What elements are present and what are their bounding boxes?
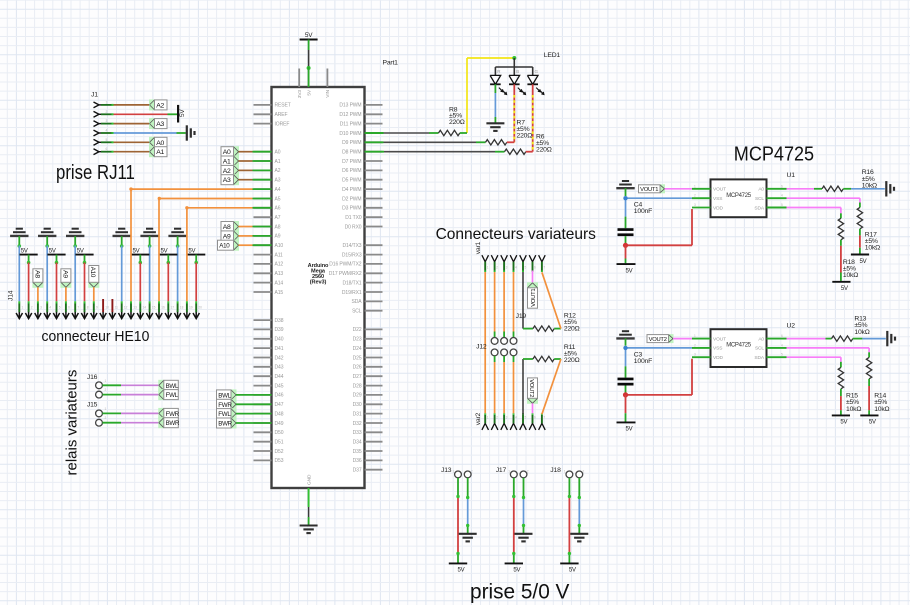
svg-text:2: 2 (105, 388, 107, 392)
svg-text:100nF: 100nF (634, 358, 652, 365)
svg-text:VSS: VSS (713, 346, 722, 352)
svg-text:A3: A3 (275, 178, 281, 184)
svg-text:11: 11 (115, 306, 119, 310)
svg-text:10kΩ: 10kΩ (874, 406, 889, 413)
svg-text:J14: J14 (8, 290, 15, 301)
svg-text:U2: U2 (787, 322, 796, 329)
svg-text:VSS: VSS (713, 196, 722, 202)
svg-text:A10: A10 (219, 243, 230, 250)
svg-text:D35: D35 (353, 449, 362, 455)
svg-text:5: 5 (781, 203, 783, 207)
svg-text:A8: A8 (33, 270, 40, 278)
svg-text:D10 PWM: D10 PWM (339, 131, 361, 137)
svg-text:SDA: SDA (754, 205, 764, 211)
svg-text:MCP4725: MCP4725 (726, 193, 752, 199)
svg-text:D19/RX1: D19/RX1 (342, 290, 362, 296)
svg-text:1: 1 (694, 184, 696, 188)
svg-text:7: 7 (77, 306, 79, 310)
svg-text:6: 6 (534, 266, 536, 270)
svg-text:14: 14 (143, 306, 147, 310)
svg-text:6: 6 (534, 416, 536, 420)
svg-text:FWR: FWR (218, 402, 232, 409)
svg-text:D14/TX3: D14/TX3 (342, 243, 361, 249)
svg-text:D4 PWM: D4 PWM (342, 187, 361, 193)
svg-text:2: 2 (694, 343, 696, 347)
svg-text:3: 3 (694, 203, 696, 207)
svg-text:3: 3 (506, 416, 508, 420)
svg-text:D34: D34 (353, 440, 362, 446)
svg-text:VOUT: VOUT (713, 187, 726, 193)
svg-text:VOUT1: VOUT1 (531, 289, 537, 307)
svg-text:10kΩ: 10kΩ (862, 182, 877, 189)
svg-text:A8: A8 (275, 224, 281, 230)
svg-text:220Ω: 220Ω (564, 357, 580, 364)
svg-text:A2: A2 (223, 168, 231, 175)
svg-text:D25: D25 (353, 355, 362, 361)
svg-text:5V: 5V (179, 109, 186, 117)
svg-text:VOUT2: VOUT2 (528, 379, 534, 397)
svg-text:A3: A3 (156, 121, 164, 128)
svg-text:D13 PWM: D13 PWM (339, 103, 361, 109)
svg-text:D24: D24 (353, 346, 362, 352)
svg-text:1: 1 (487, 266, 489, 270)
svg-text:D26: D26 (353, 365, 362, 371)
svg-text:2: 2 (106, 110, 108, 114)
svg-text:connecteur HE10: connecteur HE10 (42, 329, 150, 346)
svg-text:D17 PWM/RX2: D17 PWM/RX2 (329, 271, 362, 277)
svg-text:D38: D38 (275, 318, 284, 324)
svg-text:MCP4725: MCP4725 (726, 343, 752, 349)
svg-text:10kΩ: 10kΩ (865, 245, 880, 252)
svg-text:A6: A6 (275, 206, 281, 212)
svg-text:10kΩ: 10kΩ (846, 406, 861, 413)
svg-text:J12: J12 (476, 344, 487, 351)
svg-text:VOUT: VOUT (713, 336, 726, 342)
svg-text:220Ω: 220Ω (449, 119, 465, 126)
svg-text:A5: A5 (275, 196, 281, 202)
svg-text:5V: 5V (626, 268, 633, 274)
svg-text:VOUT2: VOUT2 (649, 337, 667, 343)
svg-text:3: 3 (506, 266, 508, 270)
svg-text:5: 5 (525, 266, 527, 270)
svg-text:15: 15 (152, 306, 156, 310)
svg-text:A13: A13 (275, 271, 284, 277)
svg-text:D5 PWM: D5 PWM (342, 178, 361, 184)
svg-text:D2 PWM: D2 PWM (342, 196, 361, 202)
svg-text:1: 1 (564, 470, 566, 474)
svg-text:A2: A2 (275, 168, 281, 174)
svg-text:4: 4 (515, 266, 517, 270)
svg-text:VOUT1: VOUT1 (640, 187, 658, 193)
svg-text:J13: J13 (441, 467, 452, 474)
svg-text:13: 13 (133, 306, 137, 310)
svg-text:D16 PWM/TX2: D16 PWM/TX2 (329, 262, 362, 268)
svg-text:A0: A0 (275, 150, 281, 156)
svg-text:5V: 5V (458, 568, 465, 574)
svg-text:RESET: RESET (275, 103, 291, 109)
svg-text:SCL: SCL (755, 196, 764, 202)
svg-text:A1: A1 (223, 159, 231, 166)
svg-text:2: 2 (496, 416, 498, 420)
svg-text:A1: A1 (156, 149, 164, 156)
svg-text:GND: GND (307, 474, 313, 485)
svg-text:SDA: SDA (754, 355, 764, 361)
svg-text:D1 TX0: D1 TX0 (345, 215, 362, 221)
svg-text:5: 5 (525, 416, 527, 420)
svg-text:2: 2 (583, 470, 585, 474)
svg-text:5V: 5V (188, 248, 195, 254)
svg-text:A9: A9 (275, 234, 281, 240)
svg-text:D48: D48 (275, 411, 284, 417)
svg-text:D37: D37 (353, 468, 362, 474)
svg-text:MCP4725: MCP4725 (734, 144, 814, 166)
svg-text:10kΩ: 10kΩ (854, 329, 869, 336)
svg-text:A7: A7 (275, 215, 281, 221)
svg-text:(Rev3): (Rev3) (310, 280, 327, 286)
svg-text:D12 PWM: D12 PWM (339, 112, 361, 118)
svg-text:FWL: FWL (218, 411, 231, 418)
svg-text:G: G (535, 69, 539, 74)
svg-text:3: 3 (694, 353, 696, 357)
svg-text:5V: 5V (569, 568, 576, 574)
svg-text:20: 20 (198, 306, 202, 310)
svg-text:18: 18 (180, 306, 184, 310)
svg-text:SDA: SDA (352, 299, 363, 305)
svg-text:A3: A3 (223, 177, 231, 184)
svg-text:D0 RX0: D0 RX0 (345, 224, 362, 230)
svg-text:7: 7 (543, 266, 545, 270)
svg-text:A1: A1 (275, 159, 281, 165)
svg-text:6: 6 (68, 306, 70, 310)
svg-text:D15/RX3: D15/RX3 (342, 252, 362, 258)
svg-text:220Ω: 220Ω (564, 325, 580, 332)
svg-text:2: 2 (471, 470, 473, 474)
svg-text:2: 2 (31, 306, 33, 310)
svg-text:BWL: BWL (166, 383, 179, 390)
svg-text:1: 1 (508, 470, 510, 474)
svg-text:5V: 5V (513, 568, 520, 574)
svg-text:D43: D43 (275, 365, 284, 371)
svg-text:IOREF: IOREF (275, 121, 290, 127)
svg-text:D32: D32 (353, 421, 362, 427)
svg-text:A0: A0 (156, 140, 164, 147)
svg-text:4: 4 (515, 416, 517, 420)
svg-text:D49: D49 (275, 421, 284, 427)
svg-text:D41: D41 (275, 346, 284, 352)
svg-text:FWR: FWR (166, 411, 180, 418)
svg-text:10: 10 (105, 306, 109, 310)
svg-text:VDD: VDD (713, 205, 723, 211)
svg-text:4: 4 (781, 343, 783, 347)
svg-text:B: B (516, 69, 519, 74)
svg-text:SCL: SCL (352, 309, 362, 315)
svg-text:D28: D28 (353, 383, 362, 389)
svg-text:D50: D50 (275, 430, 284, 436)
svg-text:4: 4 (49, 306, 51, 310)
svg-text:A9: A9 (223, 233, 231, 240)
svg-text:2: 2 (496, 266, 498, 270)
svg-text:D45: D45 (275, 383, 284, 389)
svg-text:D23: D23 (353, 337, 362, 343)
svg-text:D11 PWM: D11 PWM (340, 121, 362, 127)
svg-text:1: 1 (22, 306, 24, 310)
svg-text:6: 6 (781, 184, 783, 188)
svg-text:2: 2 (527, 470, 529, 474)
svg-text:7: 7 (543, 416, 545, 420)
svg-text:10kΩ: 10kΩ (843, 272, 858, 279)
svg-text:A0: A0 (758, 187, 764, 193)
svg-text:D44: D44 (275, 374, 284, 380)
svg-text:A8: A8 (223, 224, 231, 231)
svg-text:Part1: Part1 (383, 60, 399, 67)
svg-text:D6 PWM: D6 PWM (342, 168, 361, 174)
svg-text:5V: 5V (21, 248, 28, 254)
svg-text:var1: var1 (475, 241, 482, 254)
svg-text:A0: A0 (758, 336, 764, 342)
svg-text:relais variateurs: relais variateurs (63, 370, 80, 476)
svg-text:D18/TX1: D18/TX1 (342, 280, 361, 286)
svg-text:var2: var2 (475, 412, 482, 425)
svg-text:A10: A10 (275, 243, 284, 249)
svg-text:VIN: VIN (325, 89, 331, 97)
svg-text:2: 2 (694, 194, 696, 198)
svg-text:6: 6 (781, 334, 783, 338)
svg-text:D47: D47 (275, 402, 284, 408)
svg-text:5V: 5V (161, 248, 168, 254)
svg-text:17: 17 (171, 306, 175, 310)
svg-text:FWL: FWL (166, 392, 179, 399)
svg-text:D52: D52 (275, 449, 284, 455)
svg-text:5: 5 (781, 353, 783, 357)
svg-text:D22: D22 (353, 327, 362, 333)
svg-text:A12: A12 (275, 262, 284, 268)
svg-text:D33: D33 (353, 430, 362, 436)
svg-text:4: 4 (106, 129, 108, 133)
svg-text:J16: J16 (87, 374, 98, 381)
svg-text:5: 5 (106, 138, 108, 142)
svg-text:J15: J15 (87, 402, 98, 409)
svg-text:U1: U1 (787, 172, 796, 179)
svg-text:AREF: AREF (275, 112, 288, 118)
svg-text:5V: 5V (841, 286, 848, 292)
svg-text:8: 8 (87, 306, 89, 310)
svg-text:5V: 5V (626, 427, 633, 433)
svg-text:A11: A11 (275, 252, 284, 258)
svg-text:LED1: LED1 (544, 52, 561, 59)
svg-text:D42: D42 (275, 355, 284, 361)
svg-text:A15: A15 (275, 290, 284, 296)
svg-text:BWR: BWR (218, 421, 232, 428)
svg-text:Connecteurs variateurs: Connecteurs variateurs (436, 226, 596, 243)
svg-text:100nF: 100nF (634, 208, 652, 215)
svg-text:16: 16 (161, 306, 165, 310)
svg-text:prise 5/0 V: prise 5/0 V (470, 580, 570, 603)
svg-text:3V3: 3V3 (297, 90, 303, 99)
svg-text:D3 PWM: D3 PWM (342, 206, 361, 212)
svg-text:5V: 5V (869, 420, 876, 426)
svg-text:J1: J1 (91, 92, 98, 99)
svg-text:D27: D27 (353, 374, 362, 380)
svg-text:19: 19 (189, 306, 193, 310)
svg-text:D36: D36 (353, 458, 362, 464)
svg-text:J18: J18 (550, 467, 561, 474)
svg-text:1: 1 (106, 100, 108, 104)
svg-text:1: 1 (694, 334, 696, 338)
svg-text:1: 1 (105, 407, 107, 411)
svg-text:D46: D46 (275, 393, 284, 399)
svg-text:2: 2 (105, 416, 107, 420)
svg-text:A14: A14 (275, 280, 284, 286)
svg-text:4: 4 (781, 194, 783, 198)
svg-text:BWR: BWR (166, 420, 180, 427)
svg-text:A4: A4 (275, 187, 281, 193)
svg-text:5V: 5V (77, 248, 84, 254)
svg-text:D9 PWM: D9 PWM (342, 140, 361, 146)
svg-text:A9: A9 (61, 270, 68, 278)
svg-text:5: 5 (59, 306, 61, 310)
svg-text:BWL: BWL (218, 392, 231, 399)
svg-text:5V: 5V (860, 259, 867, 265)
svg-text:5V: 5V (840, 420, 847, 426)
svg-text:D30: D30 (353, 402, 362, 408)
svg-text:A2: A2 (156, 102, 164, 109)
svg-text:220Ω: 220Ω (536, 147, 552, 154)
svg-text:D7 PWM: D7 PWM (342, 159, 361, 165)
svg-text:6: 6 (106, 147, 108, 151)
svg-text:D31: D31 (353, 411, 362, 417)
svg-text:A10: A10 (89, 267, 96, 278)
svg-text:3: 3 (40, 306, 42, 310)
svg-text:J17: J17 (496, 467, 507, 474)
svg-text:12: 12 (124, 306, 128, 310)
svg-text:220Ω: 220Ω (517, 133, 533, 140)
svg-text:D51: D51 (275, 440, 284, 446)
svg-text:1: 1 (487, 416, 489, 420)
svg-text:D29: D29 (353, 393, 362, 399)
svg-text:5V: 5V (49, 248, 56, 254)
svg-text:A0: A0 (223, 149, 231, 156)
svg-text:5V: 5V (305, 32, 313, 39)
svg-text:1: 1 (105, 379, 107, 383)
svg-text:SCL: SCL (755, 346, 764, 352)
svg-text:D8 PWM: D8 PWM (342, 150, 361, 156)
svg-text:3: 3 (106, 119, 108, 123)
svg-text:5V: 5V (306, 89, 312, 96)
svg-text:5V: 5V (133, 248, 140, 254)
svg-text:D53: D53 (275, 458, 284, 464)
svg-text:VDD: VDD (713, 355, 723, 361)
svg-text:9: 9 (96, 306, 98, 310)
svg-text:J19: J19 (516, 313, 527, 320)
svg-text:D40: D40 (275, 337, 284, 343)
svg-text:1: 1 (453, 470, 455, 474)
svg-text:D39: D39 (275, 327, 284, 333)
svg-text:prise RJ11: prise RJ11 (56, 160, 135, 183)
